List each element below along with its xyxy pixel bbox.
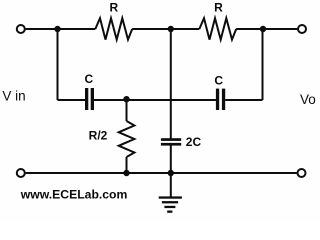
wire bottom ground rail — [26, 172, 297, 174]
terminal top-left input — [17, 25, 25, 33]
svg-text:V in: V in — [2, 89, 25, 104]
node dot Vout top — [260, 26, 266, 32]
resistor R2 — [199, 18, 236, 39]
wire top rail right segment — [236, 28, 297, 30]
ground bar 1 — [159, 196, 182, 198]
wire R/2 bottom stub — [126, 157, 128, 173]
node dot ground — [168, 170, 174, 176]
wire middle rail left segment — [58, 99, 86, 101]
node dot center top — [168, 26, 174, 32]
capacitor 2C plates — [161, 138, 181, 141]
terminal bottom-right — [298, 169, 306, 177]
wire middle rail center segment — [94, 99, 216, 101]
ground stem — [170, 173, 172, 197]
svg-text:R/2: R/2 — [89, 129, 108, 143]
svg-text:www.ECELab.com: www.ECELab.com — [20, 187, 128, 201]
terminal top-right output — [298, 25, 306, 33]
svg-text:R: R — [109, 1, 118, 15]
wire top rail middle segment — [132, 28, 199, 30]
ground bar 2 — [162, 201, 178, 203]
wire middle rail right segment — [225, 99, 262, 101]
wire Vout vertical riser — [262, 29, 264, 100]
wire center vertical lower (2C to ground rail) — [170, 146, 172, 174]
svg-text:C: C — [84, 72, 93, 86]
capacitor C1 plates — [85, 88, 88, 110]
svg-text:Vo: Vo — [300, 92, 316, 107]
ground bar 4 — [167, 211, 172, 213]
wire center vertical upper (R-R node to 2C) — [170, 29, 172, 139]
node dot R/2 bottom — [123, 170, 129, 176]
wire top rail left segment — [26, 28, 96, 30]
wire R/2 top stub — [126, 100, 128, 121]
resistor R1 — [95, 18, 132, 39]
ground bar 3 — [164, 206, 175, 208]
node dot R/2 top — [123, 96, 129, 102]
svg-text:2C: 2C — [186, 135, 202, 149]
svg-text:C: C — [214, 74, 223, 88]
capacitor C2 plates — [216, 89, 219, 110]
resistor R/2 — [119, 121, 135, 157]
node dot Vin top — [54, 26, 60, 32]
wire Vin vertical drop — [57, 29, 59, 100]
svg-text:R: R — [214, 1, 223, 15]
terminal bottom-left — [17, 169, 25, 177]
